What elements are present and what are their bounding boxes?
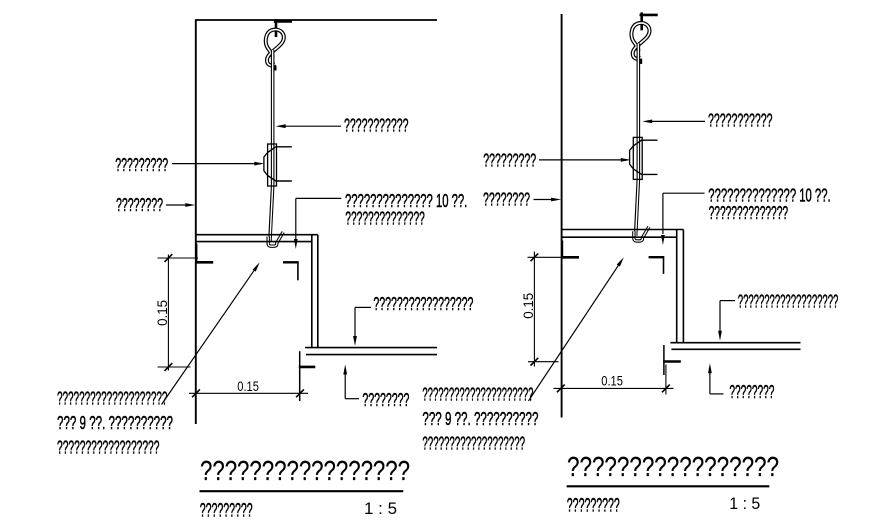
svg-text:?????????: ?????????: [115, 155, 168, 175]
svg-text:???????????: ???????????: [344, 116, 409, 136]
svg-text:????????????????????: ????????????????????: [57, 389, 167, 409]
svg-text:???????????????????: ???????????????????: [738, 291, 839, 311]
svg-text:????????: ????????: [116, 195, 163, 215]
svg-text:?????????????????: ?????????????????: [567, 451, 779, 482]
svg-text:1 : 5: 1 : 5: [364, 500, 397, 518]
svg-text:??????????????: ??????????????: [709, 203, 789, 223]
svg-text:?????????????????: ?????????????????: [373, 294, 473, 314]
svg-text:1 : 5: 1 : 5: [729, 495, 760, 513]
svg-text:?????????????????????: ?????????????????????: [422, 384, 533, 404]
svg-text:???????????: ???????????: [708, 111, 773, 131]
svg-text:????????: ????????: [483, 190, 530, 210]
svg-text:?????????????????: ?????????????????: [200, 455, 410, 486]
svg-text:?????????: ?????????: [567, 495, 620, 516]
svg-text:0.15: 0.15: [237, 378, 259, 394]
svg-text:0.15: 0.15: [520, 293, 536, 319]
svg-text:??? 9 ??. ??????????: ??? 9 ??. ??????????: [422, 409, 538, 429]
svg-text:?????????: ?????????: [483, 150, 536, 170]
svg-text:??????????????????: ??????????????????: [57, 438, 159, 458]
svg-text:??? 9 ??. ??????????: ??? 9 ??. ??????????: [57, 413, 173, 433]
svg-text:??????????????: ??????????????: [345, 209, 425, 229]
svg-text:0.15: 0.15: [601, 373, 623, 389]
svg-text:0.15: 0.15: [154, 300, 170, 326]
svg-text:????????: ????????: [362, 390, 409, 410]
svg-text:????????: ????????: [729, 382, 774, 402]
svg-text:???????????????????: ???????????????????: [422, 434, 525, 454]
svg-text:?????????: ?????????: [200, 500, 253, 520]
